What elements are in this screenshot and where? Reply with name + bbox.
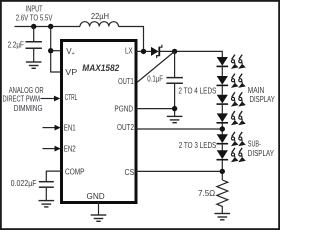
svg-text:DIMMING: DIMMING [14, 103, 43, 113]
svg-text:MAX1582: MAX1582 [82, 63, 120, 73]
node LX junction [141, 49, 146, 54]
diode D1 schottky [151, 47, 159, 56]
LED D5 [217, 113, 229, 122]
LED light arrows D7 [231, 148, 246, 162]
wire LX to diode [136, 50, 151, 52]
wire input rail [15, 26, 81, 28]
wire OUT1 diagonal [138, 51, 175, 82]
op-amp U1 MAX1582 outline [62, 41, 137, 203]
svg-text:0.1µF: 0.1µF [147, 74, 163, 84]
ground (resistor) [215, 214, 231, 220]
wire EN2 arrow [43, 148, 56, 150]
LED light arrows D6 [231, 132, 246, 146]
svg-text:VP: VP [65, 68, 77, 77]
wire CTRL arrow [41, 98, 55, 100]
svg-text:2.2µF: 2.2µF [8, 39, 24, 49]
svg-text:CS: CS [125, 168, 135, 177]
inductor L1 22uH [80, 22, 118, 27]
resistor R1 7.5 ohm [217, 180, 228, 213]
LED D2 [217, 57, 229, 66]
wire GND pin [98, 202, 100, 215]
wire diode to LED string [160, 51, 222, 57]
LED D7 [217, 150, 229, 159]
wire LED6 to CS node [221, 160, 223, 180]
wire output node down [174, 51, 176, 77]
svg-text:PGND: PGND [114, 104, 133, 113]
wire V+ branch [51, 50, 62, 52]
svg-text:EN2: EN2 [64, 145, 76, 154]
wire LED5-LED6 [221, 143, 223, 150]
capacitor C2 0.022uF [39, 181, 54, 183]
svg-text:DISPLAY: DISPLAY [248, 149, 275, 158]
LED D6 [217, 134, 229, 143]
wire V+/VP feed [51, 27, 62, 73]
LED light arrows D3 [231, 74, 246, 88]
svg-text:COMP: COMP [65, 167, 85, 176]
wire LED1-LED2 [221, 67, 223, 76]
wire LED2-LED3 [221, 86, 223, 95]
node input junction (cap) [31, 24, 36, 29]
svg-text:0.022µF: 0.022µF [11, 178, 37, 188]
wire COMP [46, 171, 61, 181]
node input junction (V+) [48, 24, 53, 29]
node PGND junction [172, 106, 177, 111]
svg-text:SUB-: SUB- [248, 140, 261, 149]
svg-text:2 TO 4 LEDS: 2 TO 4 LEDS [178, 86, 216, 96]
node output junction [172, 49, 177, 54]
svg-text:GND: GND [87, 192, 105, 201]
LED D4 [217, 95, 229, 104]
wire inductor to LX [119, 27, 144, 52]
svg-text:LX: LX [125, 47, 133, 56]
node CS junction [220, 169, 225, 174]
ground (comp cap) [39, 201, 55, 207]
svg-text:DISPLAY: DISPLAY [250, 95, 276, 104]
svg-text:CTRL: CTRL [65, 93, 78, 102]
svg-text:OUT1: OUT1 [118, 77, 134, 86]
capacitor C1 2.2uF [33, 27, 35, 42]
capacitor C3 0.1uF [166, 77, 183, 79]
svg-text:OUT2: OUT2 [117, 123, 134, 132]
wire LED4 to OUT2 node [221, 123, 223, 134]
svg-text:7.5Ω: 7.5Ω [198, 188, 215, 198]
wire EN1 arrow [43, 127, 56, 129]
svg-text:EN1: EN1 [64, 124, 76, 133]
LED light arrows D2 [231, 55, 246, 69]
LED D3 [217, 76, 229, 85]
svg-text:2.6V TO 5.5V: 2.6V TO 5.5V [16, 13, 53, 23]
LED light arrows D5 [231, 111, 246, 125]
ground (output cap) [167, 116, 183, 122]
svg-text:22µH: 22µH [91, 11, 109, 21]
wire PGND [136, 108, 175, 110]
wire OUT2 [136, 128, 222, 130]
wire LED3-LED4 [221, 105, 223, 114]
svg-text:2 TO 3 LEDS: 2 TO 3 LEDS [179, 140, 217, 150]
LED light arrows D4 [231, 92, 246, 106]
wire CS [136, 170, 222, 172]
ground (input cap) [26, 62, 42, 68]
node OUT2 junction [220, 126, 225, 131]
ground (GND pin) [91, 215, 107, 221]
node V+ junction [48, 48, 53, 53]
